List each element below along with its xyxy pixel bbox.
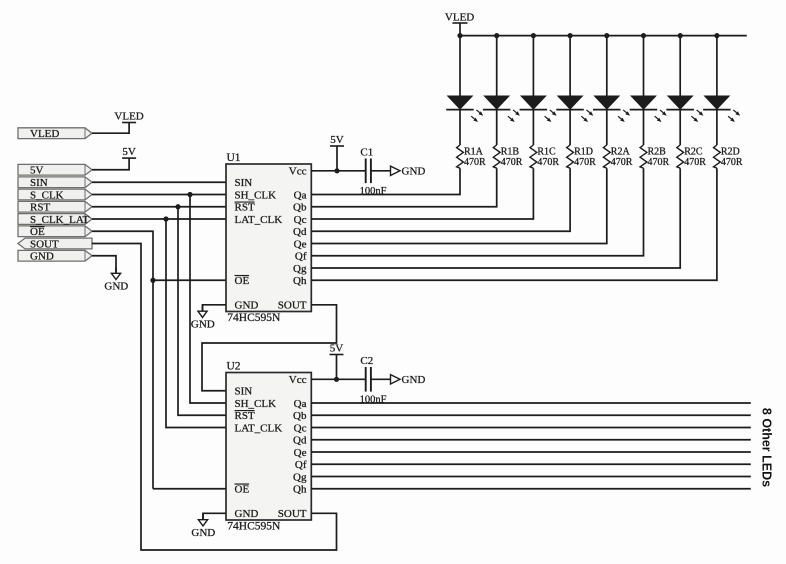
resistor R2D: [714, 145, 721, 168]
wire RST net: [92, 206, 226, 208]
svg-text:VLED: VLED: [114, 110, 143, 122]
junction VLED bus col R1D: [568, 33, 573, 38]
ground GND (U2): [202, 514, 204, 520]
wire S_CLK net: [92, 194, 226, 196]
svg-text:5V: 5V: [122, 146, 136, 158]
svg-text:SIN: SIN: [30, 177, 48, 189]
svg-text:R1D: R1D: [574, 146, 593, 157]
svg-text:SOUT: SOUT: [30, 238, 59, 250]
wire LED cathode col R1C: [532, 110, 534, 145]
svg-text:Qd: Qd: [293, 226, 307, 238]
wire VLED net: [92, 123, 129, 134]
wire R1C to U1 Qc: [311, 168, 533, 219]
svg-text:Qb: Qb: [293, 410, 307, 422]
svg-text:Qe: Qe: [294, 238, 307, 250]
svg-text:VLED: VLED: [30, 128, 59, 140]
ground GND (connector): [115, 268, 117, 274]
connector J-S_CLK: [18, 189, 92, 200]
connector J-S_CLK_LAT: [18, 214, 92, 225]
svg-text:470R: 470R: [721, 157, 743, 168]
svg-text:Qh: Qh: [293, 275, 307, 287]
svg-text:Qh: Qh: [293, 484, 307, 496]
svg-text:S_CLK_LAT: S_CLK_LAT: [30, 214, 90, 226]
svg-text:470R: 470R: [537, 157, 559, 168]
svg-text:74HC595N: 74HC595N: [227, 520, 281, 532]
wire R2D to U1 Qh: [311, 168, 717, 280]
svg-text:U2: U2: [227, 361, 241, 373]
wire anode col R1A: [459, 36, 461, 96]
svg-text:Qa: Qa: [294, 398, 307, 410]
connector J-RST: [18, 201, 92, 212]
wire LED cathode col R2A: [606, 110, 608, 145]
ground GND (C1): [391, 166, 401, 175]
svg-text:GND: GND: [30, 251, 54, 263]
wire anode col R2C: [679, 36, 681, 96]
svg-text:OE: OE: [235, 484, 250, 496]
capacitor C1: [365, 159, 367, 184]
resistor R1A: [457, 145, 464, 168]
resistor R1D: [567, 145, 574, 168]
wire U2 Qe to other LEDs: [311, 451, 751, 453]
svg-text:5V: 5V: [330, 342, 344, 354]
svg-text:GND: GND: [235, 508, 259, 520]
wire VLED bus: [460, 35, 747, 37]
power 5V (U2): [330, 354, 344, 356]
wire R1D to U1 Qd: [311, 168, 570, 231]
op IC U1 74HC595N body: [226, 164, 311, 312]
resistor R2A: [603, 145, 610, 168]
svg-text:470R: 470R: [684, 157, 706, 168]
svg-text:470R: 470R: [611, 157, 633, 168]
junction VLED bus col R2A: [604, 33, 609, 38]
wire OE net to U1: [92, 231, 226, 280]
svg-text:74HC595N: 74HC595N: [227, 312, 281, 324]
wire S_CLK_LAT branch to U2: [166, 219, 226, 428]
svg-text:Qd: Qd: [293, 435, 307, 447]
svg-text:470R: 470R: [574, 157, 596, 168]
wire anode col R2D: [716, 36, 718, 96]
junction VLED bus col R1C: [531, 33, 536, 38]
LED col R2D: [705, 96, 730, 109]
wire SIN net: [92, 181, 226, 183]
svg-text:GND: GND: [402, 166, 426, 178]
svg-text:C2: C2: [360, 355, 373, 367]
resistor R2B: [640, 145, 647, 168]
svg-text:SH_CLK: SH_CLK: [235, 189, 277, 201]
wire U1 Vcc: [311, 170, 366, 172]
connector J-5V: [18, 164, 92, 175]
svg-text:U1: U1: [227, 152, 241, 164]
wire anode col R1D: [569, 36, 571, 96]
wire U2 Qb to other LEDs: [311, 414, 751, 416]
junction U2 Vcc: [334, 377, 339, 382]
power 5V (U1): [330, 145, 344, 147]
resistor R1C: [530, 145, 537, 168]
svg-text:LAT_CLK: LAT_CLK: [235, 214, 283, 226]
wire U2 Qh to other LEDs: [311, 488, 751, 490]
svg-text:R1A: R1A: [464, 146, 484, 157]
wire U2 Vcc: [311, 378, 366, 380]
junction RST: [175, 204, 180, 209]
wire R2C to U1 Qg: [311, 168, 680, 268]
svg-text:VLED: VLED: [445, 12, 474, 24]
wire LED cathode col R1A: [459, 110, 461, 145]
svg-text:RST: RST: [235, 410, 255, 422]
svg-text:GND: GND: [235, 300, 259, 312]
svg-text:Qg: Qg: [293, 263, 307, 275]
connector J-SIN: [18, 177, 92, 188]
wire C2 to ground: [371, 378, 390, 380]
svg-text:Qb: Qb: [293, 202, 307, 214]
junction U1 Vcc: [334, 168, 339, 173]
wire anode col R2B: [643, 36, 645, 96]
ground GND (C2): [391, 375, 401, 384]
LED col R1A: [448, 96, 473, 109]
wire 5V net: [92, 158, 129, 170]
svg-text:S_CLK: S_CLK: [30, 189, 64, 201]
connector J-OE: [18, 226, 92, 237]
svg-text:RST: RST: [235, 202, 255, 214]
junction S_CLK: [187, 192, 192, 197]
wire GND net: [92, 256, 116, 272]
svg-text:R1C: R1C: [537, 146, 556, 157]
wire anode col R1C: [532, 36, 534, 96]
svg-text:Qe: Qe: [294, 447, 307, 459]
junction S_CLK_LAT: [163, 216, 168, 221]
LED col R2A: [595, 96, 620, 109]
junction VLED bus col R2C: [678, 33, 683, 38]
wire S_CLK_LAT net: [92, 218, 226, 220]
wire U2 Qf to other LEDs: [311, 463, 751, 465]
wire anode col R2A: [606, 36, 608, 96]
junction VLED bus col R2D: [714, 33, 719, 38]
wire U2 Qd to other LEDs: [311, 439, 751, 441]
wire anode col R1B: [496, 36, 498, 96]
wire U2 GND: [203, 513, 226, 519]
svg-text:470R: 470R: [464, 157, 486, 168]
wire LED cathode col R1D: [569, 110, 571, 145]
power VLED: [122, 122, 136, 124]
wire LED cathode col R2C: [679, 110, 681, 145]
svg-text:SOUT: SOUT: [278, 300, 307, 312]
wire LED cathode col R2D: [716, 110, 718, 145]
wire R2B to U1 Qf: [311, 168, 643, 256]
resistor R2C: [677, 145, 684, 168]
svg-text:SH_CLK: SH_CLK: [235, 398, 277, 410]
wire OE branch to U2: [152, 280, 154, 489]
svg-text:470R: 470R: [648, 157, 670, 168]
LED col R1B: [484, 96, 509, 109]
wire LED cathode col R2B: [643, 110, 645, 145]
svg-text:Qf: Qf: [295, 251, 307, 263]
svg-text:R2D: R2D: [721, 146, 740, 157]
svg-text:470R: 470R: [501, 157, 523, 168]
svg-text:LAT_CLK: LAT_CLK: [235, 422, 283, 434]
junction OE: [150, 278, 155, 283]
wire RST branch to U2: [178, 207, 226, 416]
svg-text:8 Other LEDs: 8 Other LEDs: [760, 408, 774, 487]
connector J-VLED: [18, 128, 92, 139]
capacitor C2: [365, 367, 367, 392]
power 5V: [122, 157, 136, 159]
svg-text:R1B: R1B: [501, 146, 520, 157]
svg-text:OE: OE: [30, 226, 45, 238]
LED col R1C: [521, 96, 546, 109]
connector J-GND: [18, 250, 92, 261]
svg-text:GND: GND: [104, 281, 128, 293]
svg-text:GND: GND: [191, 318, 215, 330]
svg-text:R2B: R2B: [648, 146, 667, 157]
junction VLED bus col R1B: [494, 33, 499, 38]
resistor R1B: [493, 145, 500, 168]
svg-text:SIN: SIN: [235, 177, 253, 189]
svg-text:Qf: Qf: [295, 459, 307, 471]
svg-text:OE: OE: [235, 275, 250, 287]
svg-text:SOUT: SOUT: [278, 508, 307, 520]
wire R2A to U1 Qe: [311, 168, 607, 243]
wire U2 Qc to other LEDs: [311, 427, 751, 429]
svg-text:GND: GND: [402, 374, 426, 386]
wire U1 GND: [203, 305, 227, 311]
wire U2 Qa to other LEDs: [311, 402, 751, 404]
svg-text:Vcc: Vcc: [289, 166, 307, 178]
svg-text:RST: RST: [30, 202, 50, 214]
svg-text:5V: 5V: [330, 134, 344, 146]
wire S_CLK branch to U2: [190, 195, 226, 404]
LED col R2C: [668, 96, 693, 109]
svg-text:Vcc: Vcc: [289, 374, 307, 386]
svg-text:R2A: R2A: [611, 146, 631, 157]
svg-text:Qc: Qc: [294, 214, 307, 226]
svg-text:R2C: R2C: [684, 146, 703, 157]
LED col R1D: [558, 96, 583, 109]
svg-text:SIN: SIN: [235, 386, 253, 398]
connector J-SOUT: [18, 238, 92, 249]
svg-text:5V: 5V: [30, 165, 44, 177]
wire U2 Qg to other LEDs: [311, 476, 751, 478]
svg-text:Qa: Qa: [294, 189, 307, 201]
junction VLED bus col R1A: [457, 33, 462, 38]
svg-text:Qg: Qg: [293, 471, 307, 483]
LED col R2B: [631, 96, 656, 109]
ground GND (U1): [202, 305, 204, 311]
op IC U2 74HC595N body: [226, 373, 311, 521]
svg-text:GND: GND: [191, 527, 215, 539]
wire R1B to U1 Qb: [311, 168, 496, 207]
junction VLED bus col R2B: [641, 33, 646, 38]
svg-text:Qc: Qc: [294, 422, 307, 434]
wire U1 SOUT to U2 SIN: [202, 305, 337, 391]
wire C1 to ground: [371, 170, 390, 172]
wire SOUT loop from U2: [92, 244, 337, 551]
wire R1A to U1 Qa: [311, 168, 460, 194]
svg-text:C1: C1: [360, 147, 373, 159]
wire LED cathode col R1B: [496, 110, 498, 145]
